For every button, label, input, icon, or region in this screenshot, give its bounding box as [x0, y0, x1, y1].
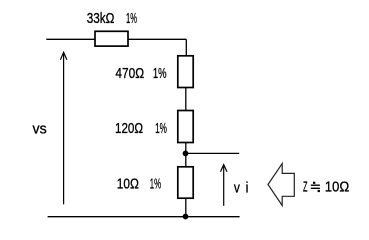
svg-text:Z: Z — [303, 179, 308, 196]
svg-text:470Ω: 470Ω — [115, 65, 144, 82]
svg-text:v: v — [234, 180, 240, 197]
svg-text:120Ω: 120Ω — [115, 120, 143, 137]
svg-text:10Ω: 10Ω — [117, 176, 139, 193]
svg-text:1%: 1% — [153, 65, 167, 82]
svg-text:i: i — [246, 180, 249, 197]
svg-text:vs: vs — [33, 121, 47, 138]
svg-text:1%: 1% — [150, 176, 161, 193]
svg-text:10Ω: 10Ω — [325, 179, 350, 196]
svg-text:33kΩ: 33kΩ — [87, 10, 115, 27]
svg-text:1%: 1% — [155, 120, 167, 137]
svg-text:1%: 1% — [126, 10, 137, 27]
